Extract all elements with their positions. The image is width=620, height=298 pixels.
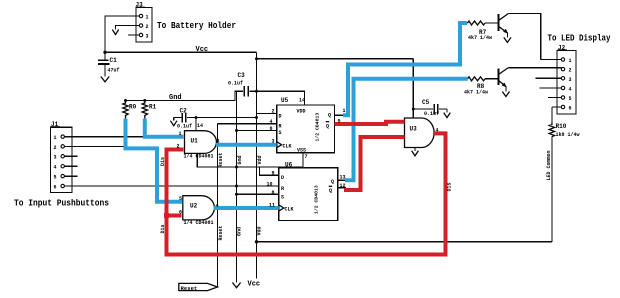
svg-text:C2: C2 [180,108,188,115]
svg-text:Gnd: Gnd [237,155,243,164]
svg-text:S: S [279,130,282,136]
svg-text:R10: R10 [556,123,567,130]
svg-text:Gnd: Gnd [237,227,243,236]
svg-text:2: 2 [569,68,572,74]
svg-text:U1: U1 [191,138,199,145]
svg-text:6: 6 [54,184,57,190]
svg-text:9: 9 [272,171,275,177]
svg-text:4k7 1/4w: 4k7 1/4w [464,90,488,96]
svg-text:VDD: VDD [297,109,306,115]
svg-text:1: 1 [179,131,182,137]
svg-text:47uf: 47uf [108,68,120,74]
svg-text:Reset: Reset [218,225,224,240]
svg-text:Vcc: Vcc [248,281,261,289]
svg-text:2: 2 [272,109,275,115]
svg-text:To LED Display: To LED Display [548,34,612,44]
svg-text:Reset: Reset [218,152,224,167]
svg-text:1: 1 [146,15,149,21]
svg-text:14: 14 [299,98,305,104]
svg-text:13: 13 [340,175,346,181]
svg-text:Q: Q [329,188,332,194]
svg-text:U3: U3 [410,126,418,133]
svg-text:5: 5 [338,119,341,125]
svg-text:6: 6 [270,126,273,132]
svg-text:1k8 1/4w: 1k8 1/4w [556,132,580,138]
svg-text:Gnd: Gnd [169,94,182,102]
svg-text:Vdd: Vdd [257,155,263,164]
svg-text:5: 5 [54,175,57,181]
svg-text:0.1uf: 0.1uf [228,81,243,87]
svg-text:1/2 CD4013: 1/2 CD4013 [315,113,321,142]
svg-text:5: 5 [179,196,182,202]
svg-text:LED Common: LED Common [546,150,552,180]
svg-text:4: 4 [216,203,219,209]
svg-text:Vdd: Vdd [257,226,263,235]
svg-text:4k7 1/4w: 4k7 1/4w [468,35,492,41]
svg-text:0.1uf: 0.1uf [424,111,439,117]
svg-text:0.1uf: 0.1uf [177,124,192,130]
svg-text:8: 8 [272,190,275,196]
svg-text:1/4 CD4081: 1/4 CD4081 [184,154,214,160]
svg-text:To Battery Holder: To Battery Holder [157,21,236,31]
svg-text:4: 4 [569,87,572,93]
svg-text:4: 4 [436,128,439,134]
svg-text:3: 3 [217,139,220,145]
svg-text:7: 7 [305,154,308,160]
svg-text:Reset: Reset [181,285,198,292]
svg-text:U2: U2 [190,203,198,210]
svg-text:CLK: CLK [285,207,294,213]
svg-text:Dis: Dis [160,157,166,166]
svg-text:1: 1 [343,108,346,114]
svg-text:Q: Q [331,179,334,185]
svg-text:R: R [281,186,284,192]
svg-text:Dis: Dis [160,224,166,233]
svg-text:12: 12 [340,183,346,189]
svg-text:1/2 CD4013: 1/2 CD4013 [314,185,320,214]
svg-text:2: 2 [177,144,180,150]
svg-text:11: 11 [269,203,275,209]
svg-text:1: 1 [54,135,57,141]
svg-text:Q: Q [326,124,329,130]
svg-text:6: 6 [569,106,572,112]
svg-text:D: D [279,114,282,120]
svg-text:3: 3 [272,139,275,145]
svg-text:6: 6 [179,210,182,216]
svg-text:U6: U6 [285,162,293,169]
svg-text:S: S [281,195,284,201]
svg-text:2: 2 [54,145,57,151]
svg-text:C3: C3 [238,72,246,79]
svg-text:14: 14 [197,123,203,129]
svg-text:R: R [279,124,282,130]
svg-text:CLK: CLK [283,144,292,150]
svg-text:Vcc: Vcc [196,46,209,54]
svg-text:U5: U5 [281,97,289,104]
svg-text:3: 3 [146,34,149,40]
svg-text:To Input Pushbuttons: To Input Pushbuttons [14,199,109,209]
svg-text:R1: R1 [149,104,157,111]
svg-text:Q: Q [328,113,331,119]
svg-text:VSS: VSS [297,148,306,154]
svg-text:C1: C1 [110,57,118,64]
svg-text:Dis: Dis [447,182,453,191]
svg-text:4: 4 [270,119,273,125]
svg-text:D: D [281,175,284,181]
svg-text:3: 3 [569,77,572,83]
svg-text:5: 5 [569,96,572,102]
svg-text:3: 3 [54,155,57,161]
svg-text:R0: R0 [129,104,137,111]
svg-text:1: 1 [569,58,572,64]
svg-text:10: 10 [267,182,273,188]
svg-text:C5: C5 [422,99,430,106]
svg-text:4: 4 [54,165,57,171]
svg-text:1/4 CD4081: 1/4 CD4081 [184,220,214,226]
svg-text:2: 2 [146,24,149,30]
